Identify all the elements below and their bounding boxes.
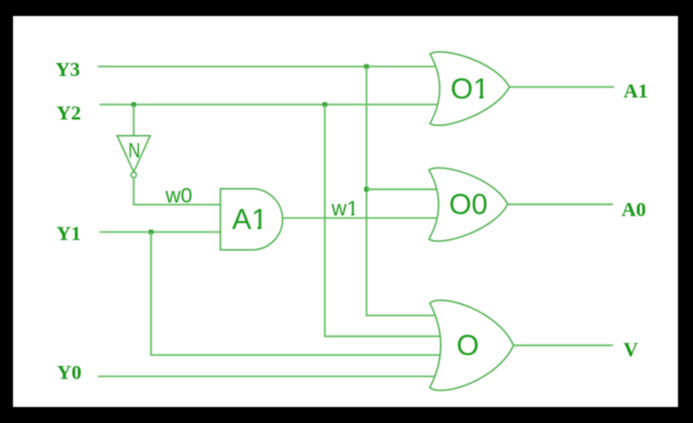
inverter N	[117, 136, 150, 178]
or-gate O	[430, 300, 514, 390]
svg-text:O1: O1	[451, 74, 490, 106]
svg-text:Y3: Y3	[56, 59, 80, 81]
node junction on Y3 wire	[364, 64, 369, 69]
wire Y1 to A1 bottom input	[100, 231, 221, 233]
wire Y2 branch down and right to O second input	[325, 105, 442, 337]
wire Y1 branch down and right to O third input	[151, 232, 442, 355]
wire Y0 to O fourth input	[98, 375, 442, 377]
svg-text:O: O	[457, 330, 480, 362]
or-gate O0	[429, 168, 508, 241]
or-gate O1	[430, 52, 509, 125]
svg-text:N: N	[128, 139, 140, 162]
wire Y2 junction down to inverter input	[133, 105, 135, 136]
svg-text:w1: w1	[331, 197, 359, 220]
node junction on Y2 wire at inverter tap	[131, 102, 136, 107]
svg-text:Y2: Y2	[57, 103, 81, 125]
and-gate A1	[220, 189, 282, 250]
svg-text:Y0: Y0	[57, 362, 81, 384]
net label w1	[331, 197, 359, 220]
wire Y3 branch down and right to O top input	[367, 67, 443, 316]
svg-text:V: V	[624, 339, 639, 361]
wire w1 A1 output to O0 bottom input	[283, 217, 443, 219]
node junction on Y3 branch at O0 tap	[364, 187, 369, 192]
svg-text:Y1: Y1	[57, 223, 81, 245]
svg-text:w0: w0	[165, 185, 193, 208]
node junction on Y2 wire at branch x=325	[323, 102, 328, 107]
svg-text:A0: A0	[622, 199, 646, 221]
wire O output to V	[514, 344, 614, 346]
wire O0 output to A0	[508, 203, 613, 205]
wire branch to O0 top input	[367, 188, 443, 190]
svg-text:O0: O0	[449, 189, 488, 221]
wire O1 output to A1	[509, 86, 614, 88]
wire w0 inverter output to A1 top input	[134, 178, 221, 205]
svg-text:A1: A1	[232, 204, 267, 236]
wire Y3 to O1 top input	[98, 66, 442, 68]
node junction on Y1 wire	[149, 230, 154, 235]
svg-text:A1: A1	[624, 81, 648, 103]
wire Y2 to O1 bottom input	[100, 104, 443, 106]
